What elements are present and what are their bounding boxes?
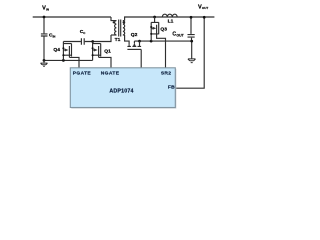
- ground (primary, left): [41, 60, 48, 66]
- wire: CC right to transformer primary bottom: [85, 35, 111, 42]
- wire: Q2 gate drop to block: [140, 49, 142, 67]
- svg-text:T1: T1: [115, 37, 121, 43]
- Q2 channel segments: [127, 45, 141, 47]
- svg-text:FB: FB: [168, 84, 175, 90]
- node: Q2 source on sec rail dot: [138, 40, 141, 43]
- inductor L1: [162, 14, 177, 17]
- IC U1 ADP1074 block shadow: [71, 69, 176, 109]
- wire: secondary bottom lead to Q2 drain: [125, 35, 130, 44]
- ground (secondary, right): [188, 59, 196, 63]
- svg-text:C: C: [83, 31, 86, 35]
- Q2 drain leg: [128, 44, 130, 46]
- wire: Q3 gate jog to SR2 pin: [157, 34, 166, 68]
- wire: clamp/switch-node wire (Q4 top to CC left): [63, 41, 81, 43]
- node: Q3 drain tap on VOUT rail: [153, 16, 156, 19]
- svg-text:Q4: Q4: [53, 47, 60, 53]
- transistor Q2 (sync rectifier, horizontal): [127, 41, 141, 49]
- node: Q3 source on sec rail dot: [150, 40, 153, 43]
- svg-text:OUT: OUT: [202, 6, 209, 10]
- svg-text:L1: L1: [168, 19, 174, 25]
- Q2 source riser: [139, 41, 141, 46]
- IC U1 ADP1074 block: [70, 68, 175, 108]
- node: Q4 source on ground rail dot: [62, 59, 65, 62]
- node: VIN junction dot: [43, 16, 46, 19]
- wire: CIN bottom to primary ground rail: [43, 37, 45, 61]
- wire: primary ground rail: [44, 59, 93, 61]
- wire: VIN top rail: [33, 16, 111, 18]
- T1 primary winding: [115, 21, 117, 35]
- svg-text:OUT: OUT: [176, 34, 184, 38]
- node: COUT / ground junction on sec rail: [190, 40, 193, 43]
- wire: Q1 gate jog to NGATE pin: [99, 57, 111, 67]
- T1 secondary bottom lead: [123, 34, 125, 36]
- T1 primary top lead: [111, 17, 116, 21]
- T1 primary polarity dot: [113, 21, 115, 23]
- node: VOUT / FB junction dot: [203, 16, 206, 19]
- capacitor COUT: [188, 35, 195, 38]
- capacitor CIN: [41, 34, 48, 36]
- T1 primary bottom lead: [111, 34, 116, 36]
- node: switch node dot (Q1 drain): [91, 40, 94, 43]
- T1 secondary top lead: [123, 20, 125, 22]
- T1 core: [119, 20, 121, 37]
- svg-text:NGATE: NGATE: [101, 70, 120, 76]
- svg-text:Q3: Q3: [160, 26, 167, 32]
- svg-text:SR2: SR2: [161, 70, 171, 76]
- wire: sec rail down to ground symbol: [191, 41, 193, 59]
- node: primary ground junction dot: [43, 59, 46, 62]
- capacitor CC: [81, 38, 84, 44]
- wire: VIN tap down to CIN: [43, 17, 45, 33]
- Q2 body arrow: [133, 41, 135, 43]
- Q2 gate bar: [127, 48, 141, 50]
- wire: secondary top lead to VOUT rail: [125, 17, 215, 21]
- node: COUT tap on VOUT rail: [190, 16, 193, 19]
- T1 secondary winding: [123, 21, 125, 35]
- svg-text:Q2: Q2: [131, 32, 138, 38]
- wire: VOUT rail down to COUT: [190, 17, 192, 34]
- svg-text:IN: IN: [53, 34, 56, 38]
- svg-text:Q1: Q1: [104, 48, 111, 54]
- svg-text:IN: IN: [46, 7, 49, 11]
- wire: FB riser from VOUT rail: [175, 17, 204, 88]
- wire: secondary ground rail: [134, 40, 191, 42]
- transistor Q3 (freewheel SR NMOS): [150, 17, 159, 41]
- T1 secondary polarity dot: [123, 21, 125, 23]
- svg-text:ADP1074: ADP1074: [109, 89, 133, 95]
- wire: COUT bottom to sec ground rail: [191, 38, 193, 41]
- transformer T1: [111, 17, 125, 37]
- transistor Q4 (clamp PMOS): [62, 42, 71, 61]
- wire: Q4 gate jog to PGATE pin: [69, 57, 79, 67]
- transistor Q1 (main NMOS): [92, 42, 101, 61]
- svg-text:PGATE: PGATE: [73, 70, 92, 76]
